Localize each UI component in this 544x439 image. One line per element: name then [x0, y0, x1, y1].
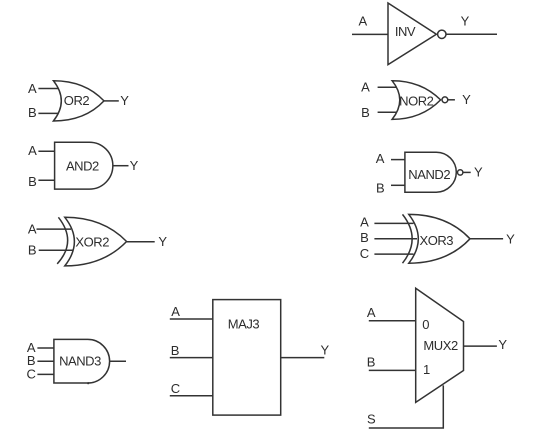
inversion bubble of U7 NOR2: [442, 97, 448, 103]
svg-text:Y: Y: [462, 92, 471, 107]
wire A input of U5 NAND3: [37, 347, 54, 349]
wire B input of U6 MAJ3: [170, 357, 213, 359]
and gate U3 AND2 body: [55, 142, 113, 189]
svg-text:Y: Y: [158, 234, 167, 249]
svg-text:A: A: [28, 143, 37, 158]
wire A input of U3 AND2: [38, 150, 54, 152]
wire Y output of U2 OR2: [104, 100, 119, 102]
xor gate U9 XOR3 input-side arc: [403, 214, 413, 263]
junction dot artifact on NAND3 bottom edge: [87, 382, 89, 384]
wire Y output of U5 NAND3: [110, 360, 126, 362]
inverter U1 triangle: [388, 3, 436, 65]
wire B input of U7 NOR2: [378, 111, 397, 113]
svg-text:Y: Y: [506, 232, 515, 247]
multiplexer U10 MUX2 trapezoid body: [416, 288, 464, 402]
wire B input of U2 OR2: [38, 112, 58, 114]
wire A input of U1 INV: [352, 33, 388, 35]
svg-text:A: A: [360, 215, 369, 230]
svg-text:INV: INV: [395, 24, 416, 39]
nand gate U8 NAND2 body: [405, 152, 456, 192]
inversion bubble of U8 NAND2: [458, 170, 463, 175]
wire A input of U7 NOR2: [378, 86, 397, 88]
wire A input of U9 XOR3: [374, 222, 413, 224]
wire Y output of U1 INV: [446, 33, 497, 35]
svg-text:Y: Y: [474, 164, 483, 179]
wire A input of U2 OR2: [38, 88, 58, 90]
svg-text:A: A: [361, 80, 370, 95]
svg-text:MAJ3: MAJ3: [228, 317, 260, 332]
wire C input of U6 MAJ3: [170, 395, 213, 397]
svg-text:A: A: [28, 221, 37, 236]
svg-text:B: B: [361, 105, 370, 120]
xor gate U4 XOR2 body: [65, 217, 127, 266]
svg-text:XOR3: XOR3: [419, 233, 453, 248]
wire Y output of U10 MUX2: [464, 345, 497, 347]
inversion bubble of U1: [438, 30, 446, 38]
svg-text:NAND2: NAND2: [408, 167, 450, 182]
svg-text:A: A: [171, 304, 180, 319]
svg-text:C: C: [27, 367, 36, 382]
svg-text:OR2: OR2: [64, 93, 90, 108]
svg-text:C: C: [360, 246, 369, 261]
svg-text:1: 1: [423, 362, 430, 377]
svg-text:AND2: AND2: [66, 158, 99, 173]
nor gate U7 NOR2 body: [392, 81, 441, 120]
wire A input of U10 MUX2: [369, 320, 416, 322]
svg-text:A: A: [358, 13, 367, 28]
svg-text:S: S: [367, 412, 376, 427]
svg-text:B: B: [376, 181, 385, 196]
svg-text:B: B: [28, 243, 37, 258]
or gate U2 OR2 body: [53, 81, 104, 121]
wire Y output of U3 AND2: [113, 165, 129, 167]
wire B input of U4 XOR2: [39, 249, 73, 251]
svg-text:Y: Y: [461, 13, 470, 28]
xor gate U9 XOR3 body: [409, 214, 470, 263]
svg-text:C: C: [171, 381, 180, 396]
wire Y output of U9 XOR3: [470, 238, 503, 240]
wire C input of U9 XOR3: [374, 253, 413, 255]
svg-text:B: B: [360, 230, 369, 245]
svg-text:Y: Y: [321, 343, 330, 358]
svg-text:Y: Y: [120, 93, 129, 108]
svg-text:B: B: [171, 343, 180, 358]
svg-text:A: A: [367, 305, 376, 320]
wire B input of U8 NAND2: [391, 184, 405, 186]
svg-text:Y: Y: [130, 158, 139, 173]
wire C input of U5 NAND3: [37, 373, 54, 375]
wire B input of U9 XOR3: [374, 238, 417, 240]
wire B input of U3 AND2: [38, 179, 54, 181]
wire A input of U8 NAND2: [391, 159, 405, 161]
svg-text:A: A: [28, 81, 37, 96]
svg-text:NOR2: NOR2: [399, 93, 434, 108]
svg-text:B: B: [28, 174, 37, 189]
svg-text:B: B: [28, 105, 37, 120]
majority gate U6 MAJ3 box: [213, 300, 281, 416]
svg-text:B: B: [367, 355, 376, 370]
svg-text:0: 0: [422, 317, 429, 332]
wire Y output of U6 MAJ3: [281, 357, 325, 359]
wire Y output of U7 NOR2: [448, 99, 455, 101]
wire Y output of U8 NAND2: [463, 171, 471, 173]
svg-text:XOR2: XOR2: [75, 234, 109, 249]
wire B input of U5 NAND3: [37, 360, 54, 362]
wire Y output of U4 XOR2: [127, 241, 155, 243]
wire S select input of U10 MUX2: [369, 385, 444, 428]
svg-text:MUX2: MUX2: [423, 338, 458, 353]
svg-text:A: A: [376, 151, 385, 166]
svg-text:Y: Y: [498, 337, 507, 352]
svg-text:NAND3: NAND3: [59, 353, 101, 368]
wire A input of U6 MAJ3: [170, 318, 213, 320]
nand gate U5 NAND3 body: [54, 339, 110, 383]
wire A input of U4 XOR2: [37, 228, 72, 230]
xor gate U4 XOR2 input-side arc: [57, 217, 67, 264]
wire B input of U10 MUX2: [369, 369, 416, 371]
